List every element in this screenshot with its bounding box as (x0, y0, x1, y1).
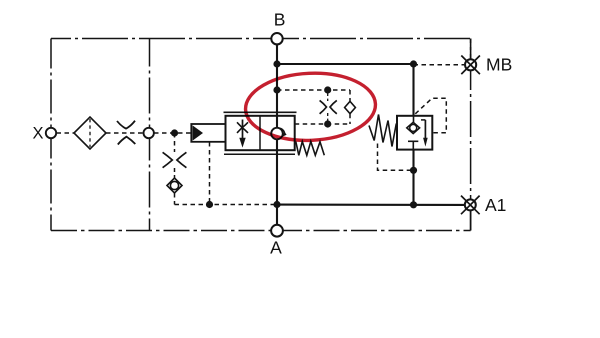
relief valve V3 pilot loop (dashed) (415, 98, 446, 133)
border solid segment below A1 (470, 210, 472, 231)
pilot wire to MB (dashed) (414, 64, 465, 66)
svg-text:B: B (274, 10, 286, 30)
orifice O2 (restrictor on vertical line) (163, 152, 173, 167)
pilot diamond D1 (345, 101, 356, 113)
port X (46, 128, 56, 138)
solenoid S1 box (191, 124, 225, 142)
junction dot B-MB (273, 60, 280, 67)
check valve V1 (ball in seat diamond) (167, 178, 182, 193)
pilot dashed segment down (174, 193, 176, 205)
pilot line X to filter (dashed) (57, 132, 75, 134)
valve V2 left position throttle arcs (237, 122, 248, 127)
wire relief-valve upper (412, 64, 414, 116)
solenoid S1 armature (filled triangle) (192, 125, 203, 140)
relief valve V3 seat stop (408, 140, 418, 142)
pilot net: branch from B line (dashed) (277, 89, 350, 91)
valve V2 left position flow arrow (242, 120, 244, 140)
valve V2 spring (296, 142, 325, 156)
pilot line filter to orifice (dashed) (106, 132, 144, 134)
node dot pilot bottom (324, 120, 331, 127)
valve V2 position divider (259, 116, 261, 150)
valve V2 body (226, 116, 295, 150)
valve V2 top plate line (224, 111, 297, 113)
wire B vertical (B to A) (276, 45, 278, 226)
orifice O3 (restrictor on vertical pilot) (327, 93, 329, 101)
port MB (plugged) (465, 59, 476, 70)
filter F1 (diamond with dashed mesh) (74, 117, 106, 149)
node pilot junction circle (144, 128, 154, 138)
port A1 (plugged) (465, 199, 476, 210)
orifice O1 (restrictor on horizontal line) (117, 121, 135, 129)
node junction dot left (171, 129, 178, 136)
svg-text:X: X (33, 125, 44, 143)
pilot drain line to A (dashed) (175, 204, 278, 206)
relief valve V3 body (397, 116, 432, 150)
junction dot B-pilot (273, 86, 280, 93)
border solid segment above MB (470, 39, 472, 60)
junction dot drain at A line (273, 201, 280, 208)
relief valve V3 drain (dashed) (378, 144, 414, 171)
junction dot MB line (410, 60, 417, 67)
pilot dashed segment (174, 168, 176, 178)
junction dot A line (410, 201, 417, 208)
wire A line to A1 (277, 204, 464, 206)
relief valve V3 inlet line (413, 116, 415, 123)
valve V2 right position poppet ball (271, 128, 283, 140)
valve V2 bottom plate line (224, 153, 295, 155)
solenoid drain (dashed vertical) (209, 142, 211, 205)
port B (271, 33, 282, 44)
pilot line node to solenoid (dashed) (154, 132, 191, 134)
pilot branch down from node (dashed) (174, 133, 176, 152)
svg-text:A1: A1 (485, 195, 506, 215)
inner boundary dash-dot line (149, 39, 151, 231)
pilot return to valve (dashed) (295, 123, 350, 125)
node dot pilot top (324, 86, 331, 93)
enclosure border (dash-dot frame) (51, 38, 471, 40)
port A (271, 225, 283, 237)
relief valve V3 flow arrow (421, 119, 425, 121)
svg-text:A: A (270, 238, 282, 258)
relief valve V3 seat diamond with ball (407, 122, 420, 133)
relief valve V3 spring (369, 115, 396, 147)
wire relief-valve lower (412, 150, 414, 205)
junction dot drain (206, 201, 213, 208)
svg-text:MB: MB (486, 54, 512, 74)
junction dot relief drain (410, 167, 417, 174)
highlight red ellipse (244, 70, 377, 143)
wire B branch to MB (277, 63, 414, 65)
